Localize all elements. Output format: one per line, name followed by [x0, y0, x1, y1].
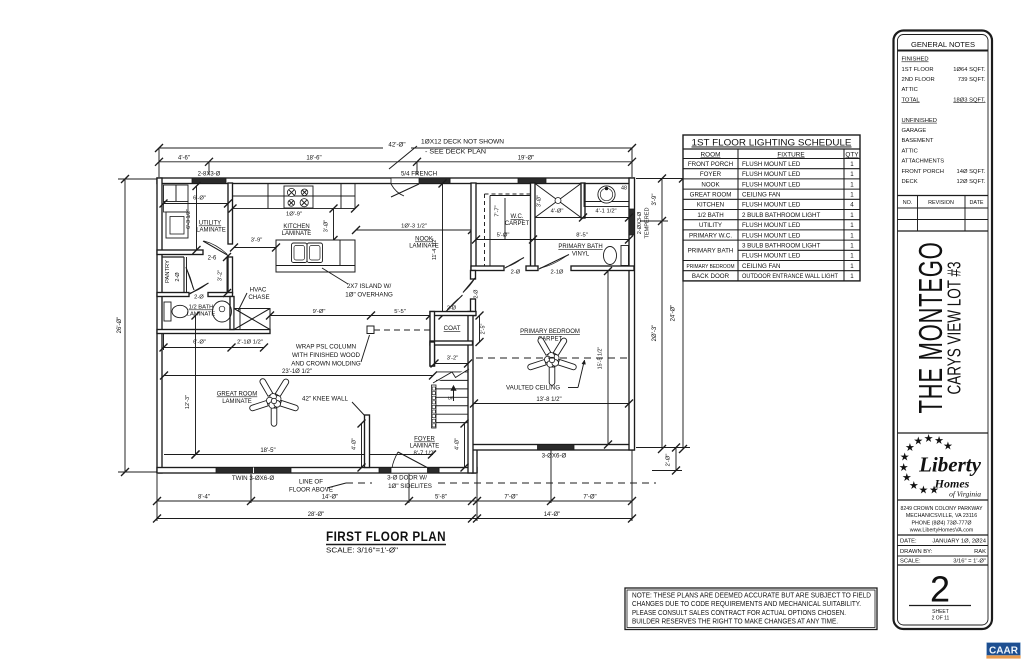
svg-text:1: 1 [850, 181, 854, 188]
svg-text:SCALE:: SCALE: [900, 559, 921, 565]
svg-text:NO.: NO. [903, 200, 913, 206]
window 2-0X3-0 tempered (right wall) [629, 209, 635, 235]
wall: top exterior [157, 178, 634, 184]
svg-text:6'-Ø": 6'-Ø" [193, 196, 206, 202]
svg-text:1/2 BATH: 1/2 BATH [189, 305, 214, 311]
svg-text:5'-Ø": 5'-Ø" [497, 233, 510, 239]
svg-text:23'-1Ø 1/2": 23'-1Ø 1/2" [282, 369, 312, 375]
svg-text:PRIMARY BEDROOM: PRIMARY BEDROOM [520, 329, 580, 335]
shower with X [535, 184, 581, 218]
svg-text:FLUSH MOUNT LED: FLUSH MOUNT LED [742, 222, 801, 229]
svg-text:2: 2 [930, 569, 950, 610]
svg-text:NOOK: NOOK [415, 237, 433, 243]
svg-text:★: ★ [934, 435, 944, 447]
svg-text:RAK: RAK [974, 549, 986, 555]
hvac chase box [234, 309, 270, 330]
dim line 26'-0" (left side) [124, 179, 126, 472]
svg-text:UTILITY: UTILITY [199, 221, 221, 227]
svg-text:GREAT ROOM: GREAT ROOM [690, 192, 732, 199]
svg-text:★: ★ [913, 436, 923, 448]
svg-text:2-ØX3-Ø: 2-ØX3-Ø [637, 211, 643, 234]
svg-text:7'-Ø": 7'-Ø" [504, 495, 517, 501]
dim line 3'-9" / 20'-3" (right inner) [661, 179, 663, 450]
svg-text:9'-Ø": 9'-Ø" [313, 309, 326, 315]
svg-text:GARAGE: GARAGE [902, 128, 927, 134]
svg-text:1Ø'-9": 1Ø'-9" [286, 212, 302, 218]
extension lines top [158, 148, 160, 177]
svg-text:ATTACHMENTS: ATTACHMENTS [902, 159, 945, 165]
stairs balusters [432, 385, 437, 428]
svg-text:FRONT PORCH: FRONT PORCH [902, 169, 944, 175]
svg-text:5/4 FRENCH: 5/4 FRENCH [401, 171, 437, 178]
svg-text:2-1Ø: 2-1Ø [551, 270, 564, 276]
washer/dryer [166, 212, 188, 238]
svg-text:5'-8": 5'-8" [435, 495, 447, 501]
svg-text:4'-1 1/2": 4'-1 1/2" [595, 209, 616, 215]
svg-text:48: 48 [621, 186, 627, 192]
svg-text:1: 1 [850, 253, 854, 260]
toilet (primary bath) [621, 246, 629, 266]
stairs up arrow [453, 388, 455, 401]
dim 12'-3" great room vertical [195, 316, 197, 455]
extension lines right [636, 178, 690, 180]
french door leaf + swing [391, 184, 419, 197]
svg-text:3'-Ø": 3'-Ø" [537, 195, 543, 207]
svg-text:ROOM: ROOM [701, 152, 721, 159]
dim 11'-4 1/2" nook vertical [442, 184, 444, 316]
svg-text:2 OF 11: 2 OF 11 [932, 616, 950, 622]
svg-text:1Ø" SIDELITES: 1Ø" SIDELITES [388, 483, 432, 490]
window 2-8X3-0 (utility, top wall) [192, 178, 226, 184]
svg-text:8249 CROWN COLONY PARKWAY: 8249 CROWN COLONY PARKWAY [901, 506, 983, 512]
stove / range 4 burners [284, 186, 313, 208]
svg-text:3'-9": 3'-9" [251, 238, 263, 244]
svg-text:WRAP PSL COLUMN: WRAP PSL COLUMN [296, 344, 356, 351]
svg-text:2-Ø: 2-Ø [511, 270, 521, 276]
svg-text:2ND FLOOR: 2ND FLOOR [902, 77, 935, 83]
svg-text:FLUSH MOUNT LED: FLUSH MOUNT LED [742, 232, 801, 239]
dim 9'-0" / 5'-5" hall line [270, 315, 430, 317]
svg-text:FOYER: FOYER [414, 437, 435, 443]
svg-text:14'-Ø": 14'-Ø" [544, 512, 561, 518]
dim 15'-5 1/2" bedroom vertical [607, 271, 609, 445]
window 3-0X6-0 (bottom wall bedroom) [538, 445, 575, 451]
svg-text:DECK: DECK [902, 179, 918, 185]
dim 23'-10 1/2" great room [164, 375, 433, 377]
toilet (half bath) [164, 302, 171, 321]
svg-text:1ST FLOOR: 1ST FLOOR [902, 67, 934, 73]
svg-text:8'-4": 8'-4" [198, 495, 210, 501]
svg-text:LAMINATE: LAMINATE [196, 228, 226, 234]
wall: bottom exterior (great room / foyer) [157, 468, 477, 474]
svg-text:REVISION: REVISION [928, 200, 954, 206]
svg-text:LAMINATE: LAMINATE [187, 312, 216, 318]
svg-text:FIXTURE: FIXTURE [777, 152, 804, 159]
svg-text:LAMINATE: LAMINATE [282, 231, 312, 237]
svg-text:1Ø" OVERHANG: 1Ø" OVERHANG [345, 292, 393, 299]
svg-text:KITCHEN: KITCHEN [697, 202, 724, 209]
bath vanity sink [584, 184, 629, 207]
column PSL [367, 326, 374, 334]
svg-text:PRIMARY BATH: PRIMARY BATH [558, 244, 602, 250]
svg-text:11'-4 1/2": 11'-4 1/2" [432, 238, 438, 260]
stairs treads [436, 363, 468, 365]
svg-text:12Ø SQFT.: 12Ø SQFT. [957, 179, 986, 185]
svg-text:CARPET: CARPET [505, 221, 530, 227]
dim line 24'-0" (right outer) [682, 179, 684, 450]
svg-text:FRONT PORCH: FRONT PORCH [688, 161, 733, 168]
svg-text:QTY: QTY [845, 152, 859, 159]
address rule [898, 499, 989, 501]
svg-text:THE MONTEGO: THE MONTEGO [912, 242, 949, 414]
svg-text:FLUSH MOUNT LED: FLUSH MOUNT LED [742, 171, 801, 178]
dim line second row: 4'-6", 18'-6", 19'-0" [159, 161, 632, 163]
svg-text:FLUSH MOUNT LED: FLUSH MOUNT LED [742, 253, 801, 260]
svg-text:BUILDER RESERVES THE RIGHT TO: BUILDER RESERVES THE RIGHT TO MAKE CHANG… [632, 619, 838, 626]
svg-text:NOOK: NOOK [701, 181, 720, 188]
svg-text:FLUSH MOUNT LED: FLUSH MOUNT LED [742, 181, 801, 188]
svg-text:JANUARY 1Ø, 2Ø24: JANUARY 1Ø, 2Ø24 [932, 539, 986, 545]
dim 4'-0" knee wall / foyer [361, 424, 363, 468]
svg-text:6'-3 1/2": 6'-3 1/2" [186, 209, 192, 229]
svg-text:DATE:: DATE: [900, 539, 917, 545]
kitchen island [276, 240, 355, 272]
svg-text:1ST FLOOR LIGHTING SCHEDULE: 1ST FLOOR LIGHTING SCHEDULE [692, 138, 852, 148]
svg-text:TOTAL: TOTAL [902, 97, 921, 103]
svg-text:28'-Ø": 28'-Ø" [308, 512, 325, 518]
svg-text:7'-7": 7'-7" [495, 205, 501, 216]
dim line 42'-0" overall width (top) [159, 147, 383, 149]
svg-text:LAMINATE: LAMINATE [410, 444, 440, 450]
bottom dim row 1 right: 7'-0", 7'-0" [472, 500, 632, 502]
wall: half bath bottom [157, 330, 270, 334]
island sink double basin [292, 243, 308, 263]
dim 2'-5" right of coat [479, 316, 481, 343]
svg-text:2 BULB BATHROOM LIGHT: 2 BULB BATHROOM LIGHT [742, 212, 820, 219]
svg-text:8'-7 1/2": 8'-7 1/2" [414, 451, 436, 457]
svg-text:14Ø SQFT.: 14Ø SQFT. [957, 169, 986, 175]
svg-text:PRIMARY BATH: PRIMARY BATH [688, 248, 734, 255]
dim 3'-2" hall vertical [226, 257, 228, 293]
svg-text:CEILING FAN: CEILING FAN [742, 263, 781, 270]
svg-text:2-Ø: 2-Ø [175, 272, 181, 282]
svg-text:PRIMARY W.C.: PRIMARY W.C. [689, 232, 732, 239]
svg-text:BASEMENT: BASEMENT [902, 138, 934, 144]
front door 3-0 w/ sidelites (bottom wall foyer) [379, 468, 439, 474]
svg-text:1Ø'-3 1/2": 1Ø'-3 1/2" [401, 224, 427, 230]
stair landing box 3'-2" [430, 342, 435, 366]
svg-text:ATTIC: ATTIC [902, 148, 918, 154]
svg-text:★: ★ [924, 433, 934, 445]
title block inner border [898, 35, 989, 626]
svg-text:CEILING FAN: CEILING FAN [742, 192, 781, 199]
svg-text:FOYER: FOYER [700, 171, 722, 178]
svg-text:KITCHEN: KITCHEN [283, 224, 309, 230]
svg-text:3'-9": 3'-9" [652, 194, 658, 206]
svg-text:3-Ø DOOR W/: 3-Ø DOOR W/ [387, 475, 427, 482]
svg-text:2-8X3-Ø: 2-8X3-Ø [198, 172, 221, 178]
svg-text:1: 1 [850, 263, 854, 270]
svg-text:FLUSH MOUNT LED: FLUSH MOUNT LED [742, 161, 801, 168]
rule above logo [898, 432, 989, 434]
revision table [898, 195, 989, 197]
svg-text:2X7 ISLAND W/: 2X7 ISLAND W/ [347, 283, 392, 290]
door 5/4 french (top wall) [391, 178, 450, 184]
bottom dim row 2: 28'-0" and 14'-0" [157, 518, 477, 520]
dim 3'-0" counter to island [333, 209, 335, 241]
svg-text:18'-6": 18'-6" [306, 155, 321, 161]
dashed line of floor above [346, 482, 372, 484]
dim 6'-3 1/2" utility vertical [196, 186, 198, 250]
svg-text:4'-6": 4'-6" [178, 155, 190, 161]
svg-text:7'-Ø": 7'-Ø" [583, 495, 596, 501]
svg-text:PLEASE CONSULT SALES CONTRACT: PLEASE CONSULT SALES CONTRACT FOR ACTUAL… [632, 610, 846, 617]
svg-text:PHONE (8Ø4) 73Ø-777Ø: PHONE (8Ø4) 73Ø-777Ø [911, 520, 971, 526]
wall: shower right [581, 183, 585, 218]
svg-text:LAMINATE: LAMINATE [222, 399, 252, 405]
svg-text:VAULTED CEILING: VAULTED CEILING [506, 385, 560, 392]
bath door leaf 2-10 [539, 255, 569, 270]
window above shower (top wall) [518, 178, 546, 184]
svg-text:5'-5": 5'-5" [394, 309, 406, 315]
svg-text:26'-Ø": 26'-Ø" [117, 317, 123, 334]
deck note leader [389, 146, 417, 169]
svg-text:4'-Ø": 4'-Ø" [455, 438, 461, 450]
svg-text:GREAT ROOM: GREAT ROOM [217, 392, 257, 398]
svg-text:NOTE: THESE PLANS ARE DEEMED A: NOTE: THESE PLANS ARE DEEMED ACCURATE BU… [632, 593, 871, 600]
wall: w.c. right [531, 183, 536, 270]
svg-text:HVAC: HVAC [250, 287, 267, 294]
svg-text:1/2 BATH: 1/2 BATH [697, 212, 723, 219]
note box: plans deemed accurate [625, 588, 877, 630]
svg-text:DRAWN BY:: DRAWN BY: [900, 549, 933, 555]
svg-text:GENERAL NOTES: GENERAL NOTES [911, 40, 975, 49]
utility sink counter [164, 185, 189, 202]
svg-text:6'-Ø": 6'-Ø" [193, 340, 206, 346]
svg-text:AND CROWN MOLDING: AND CROWN MOLDING [291, 361, 361, 368]
svg-text:1: 1 [850, 222, 854, 229]
svg-text:ATTIC: ATTIC [902, 87, 918, 93]
wall: half bath top [157, 293, 189, 297]
bottom dim row 1 left: 8'-4", 14'-0", 5'-8" [157, 500, 477, 502]
pantry door leaf 2-0 [186, 267, 194, 290]
svg-text:PRIMARY BEDROOM: PRIMARY BEDROOM [687, 264, 735, 270]
w.c. shelving dashed [484, 194, 486, 267]
svg-text:14'-Ø": 14'-Ø" [322, 495, 339, 501]
wall: bath bottom with door openings [471, 266, 504, 271]
half bath door leaf 2-0 [190, 283, 209, 294]
svg-text:Homes: Homes [934, 477, 970, 491]
date/drawn/scale rows [898, 534, 989, 536]
dashed line column to coat wall [374, 329, 430, 331]
svg-text:2-Ø: 2-Ø [474, 289, 480, 299]
svg-text:WITH FINISHED WOOD: WITH FINISHED WOOD [292, 352, 361, 359]
svg-text:BACK DOOR: BACK DOOR [692, 273, 730, 280]
knee wall [365, 415, 370, 468]
svg-text:3'-Ø": 3'-Ø" [324, 220, 330, 232]
svg-text:2'-1Ø 1/2": 2'-1Ø 1/2" [237, 340, 263, 346]
svg-text:12'-3": 12'-3" [185, 395, 191, 409]
svg-text:CHANGES DUE TO CODE REQUIREMEN: CHANGES DUE TO CODE REQUIREMENTS AND MEC… [632, 601, 861, 608]
svg-text:FLUSH MOUNT LED: FLUSH MOUNT LED [742, 202, 801, 209]
svg-text:★: ★ [918, 484, 928, 496]
svg-text:LINE OF: LINE OF [299, 479, 323, 486]
kitchen counter along top wall [233, 184, 356, 209]
svg-text:2-Ø: 2-Ø [447, 306, 457, 312]
svg-text:UP: UP [448, 396, 454, 401]
svg-text:of Virginia: of Virginia [949, 490, 981, 499]
svg-text:2'-Ø": 2'-Ø" [666, 454, 672, 467]
svg-text:1ØX12 DECK NOT SHOWN: 1ØX12 DECK NOT SHOWN [421, 139, 504, 146]
svg-text:UNFINISHED: UNFINISHED [902, 118, 937, 124]
wall: foyer right jog [472, 450, 477, 474]
svg-text:42" KNEE WALL: 42" KNEE WALL [302, 396, 349, 403]
wall: half bath right / chase left [230, 297, 234, 330]
wall: coat top [430, 312, 476, 316]
svg-text:UTILITY: UTILITY [699, 222, 722, 229]
wall: utility right [228, 183, 233, 244]
CAAR logo [987, 643, 1021, 656]
dim 13'-8 1/2" bedroom [474, 403, 629, 405]
svg-text:18Ø3 SQFT.: 18Ø3 SQFT. [953, 97, 986, 103]
dim 5'-0" / 8'-5" line [476, 239, 629, 241]
ceiling fan primary bedroom [553, 338, 566, 355]
title block outer border [894, 31, 993, 630]
svg-text:4: 4 [850, 202, 854, 209]
svg-text:2-6: 2-6 [208, 256, 217, 262]
svg-text:CAAR: CAAR [989, 645, 1018, 657]
dim 18'-5" great room [164, 454, 432, 456]
svg-text:TEMPERED: TEMPERED [645, 207, 651, 238]
wall: right exterior [629, 178, 635, 450]
wall: pantry [162, 256, 184, 258]
svg-text:★: ★ [909, 480, 919, 492]
svg-text:1: 1 [850, 243, 854, 250]
coat closet [430, 312, 435, 367]
svg-text:VINYL: VINYL [572, 252, 590, 258]
dim 7'-7" w.c. vertical [504, 198, 506, 240]
dim 2'-0" step at lower right [675, 448, 677, 471]
svg-text:1: 1 [850, 161, 854, 168]
svg-text:3'-2": 3'-2" [447, 356, 459, 362]
svg-text:4'-Ø": 4'-Ø" [551, 209, 564, 215]
svg-text:CARYS VIEW LOT #3: CARYS VIEW LOT #3 [945, 262, 965, 395]
svg-text:COAT: COAT [444, 325, 461, 332]
svg-text:8'-5": 8'-5" [576, 233, 588, 239]
wall: bedroom left / stairs right [471, 271, 476, 280]
svg-text:739 SQFT.: 739 SQFT. [958, 77, 986, 83]
svg-text:3'-2": 3'-2" [218, 270, 224, 281]
svg-text:OUTDOOR ENTRANCE WALL LIGHT: OUTDOOR ENTRANCE WALL LIGHT [742, 273, 838, 280]
svg-text:www.LibertyHomesVA.com: www.LibertyHomesVA.com [910, 528, 974, 534]
svg-text:1: 1 [850, 171, 854, 178]
svg-text:W.C.: W.C. [511, 214, 524, 220]
svg-text:Liberty: Liberty [918, 453, 981, 477]
svg-text:FLOOR ABOVE: FLOOR ABOVE [289, 487, 333, 494]
svg-text:3 BULB BATHROOM LIGHT: 3 BULB BATHROOM LIGHT [742, 243, 820, 250]
svg-text:2'-5": 2'-5" [481, 324, 487, 335]
pedestal sink (half bath) [213, 301, 232, 322]
window twin 3-0X6-0 (bottom wall great room) [216, 468, 291, 474]
svg-text:42'-Ø": 42'-Ø" [388, 142, 405, 149]
svg-text:3/16" = 1'-Ø": 3/16" = 1'-Ø" [953, 559, 986, 565]
utility counter [164, 202, 189, 213]
svg-text:1Ø64 SQFT.: 1Ø64 SQFT. [953, 67, 986, 73]
svg-text:1: 1 [850, 273, 854, 280]
svg-text:19'-Ø": 19'-Ø" [518, 155, 535, 161]
svg-text:SCALE: 3/16"=1'-Ø": SCALE: 3/16"=1'-Ø" [326, 548, 399, 555]
wall: bottom exterior (primary bedroom) [472, 445, 634, 451]
dashed vault ridge line [476, 357, 629, 359]
table: 1st floor lighting schedule [683, 135, 860, 281]
svg-text:DATE: DATE [970, 200, 984, 206]
svg-text:- SEE DECK PLAN: - SEE DECK PLAN [425, 149, 486, 156]
wall: utility bottom [157, 250, 203, 255]
svg-text:18'-5": 18'-5" [260, 448, 275, 454]
svg-text:CHASE: CHASE [248, 294, 269, 301]
svg-text:TWIN 3-ØX6-Ø: TWIN 3-ØX6-Ø [232, 475, 274, 482]
svg-text:3-ØX6-Ø: 3-ØX6-Ø [542, 453, 567, 460]
w.c. door leaf 2-0 [505, 258, 524, 269]
svg-text:1: 1 [850, 232, 854, 239]
ceiling fan great room [275, 379, 288, 396]
svg-text:PANTRY: PANTRY [165, 260, 171, 283]
svg-text:★: ★ [943, 441, 953, 453]
stairs break line [433, 369, 469, 383]
svg-text:2Ø'-3": 2Ø'-3" [652, 325, 658, 342]
svg-text:24'-Ø": 24'-Ø" [671, 305, 677, 322]
svg-text:1: 1 [850, 212, 854, 219]
svg-text:15'-5 1/2": 15'-5 1/2" [598, 347, 604, 370]
svg-text:SHEET: SHEET [932, 609, 949, 615]
utility door leaf 2-6 [203, 241, 229, 256]
wall: left exterior [157, 178, 162, 473]
wall: w.c. left / bedroom left upper [471, 183, 476, 270]
svg-text:2-Ø: 2-Ø [194, 295, 204, 301]
svg-text:MECHANICSVILLE, VA 23116: MECHANICSVILLE, VA 23116 [906, 513, 977, 519]
svg-text:FIRST FLOOR PLAN: FIRST FLOOR PLAN [326, 529, 446, 544]
svg-text:1: 1 [850, 192, 854, 199]
svg-text:13'-8 1/2": 13'-8 1/2" [536, 397, 561, 403]
svg-text:4'-Ø": 4'-Ø" [352, 438, 358, 450]
bottom extension lines [156, 474, 158, 521]
bedroom door leaf 2-0 [463, 278, 475, 293]
svg-text:FINISHED: FINISHED [902, 57, 929, 63]
corridor door leaf + 2-0 label [444, 295, 463, 314]
